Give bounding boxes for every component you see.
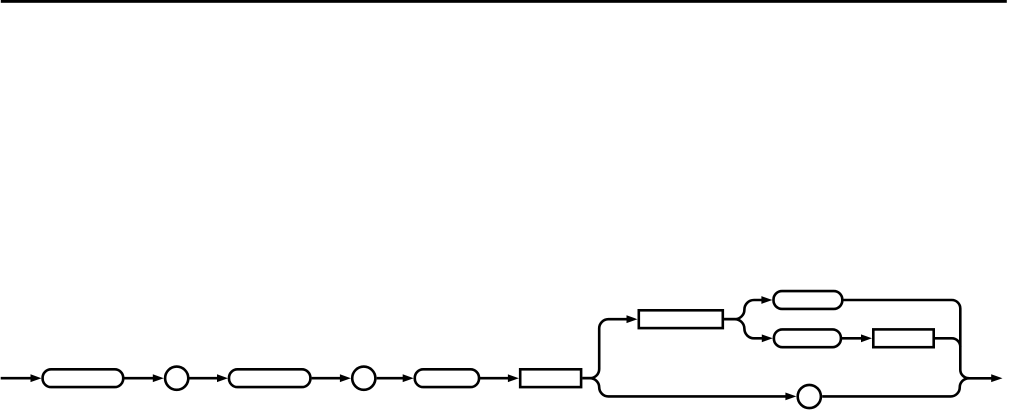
nonterminal rect R2 — [639, 310, 723, 328]
wire R3 to merge vertical — [934, 338, 961, 347]
arrow exit — [991, 374, 1002, 382]
terminal pill P1 — [43, 369, 124, 387]
circle C1 — [165, 367, 188, 390]
terminal pill P5 — [774, 329, 841, 347]
arrow into circle C2 — [340, 374, 351, 382]
wire C2 to P3 — [377, 377, 404, 380]
wire P3 to R1 — [480, 377, 509, 380]
wire split S1 upper branch to R2 — [582, 319, 628, 378]
arrow into pill P3 — [403, 374, 414, 382]
wire entry — [1, 377, 32, 380]
wire split S2 lower branch to P5 — [724, 319, 764, 338]
arrow into pill P4 — [761, 296, 772, 304]
arrow into rect R2 — [627, 315, 638, 323]
wire C1 to P2 — [190, 377, 219, 380]
arrow into circle C1 — [153, 374, 164, 382]
arrow into pill P2 — [217, 374, 228, 382]
terminal pill P2 — [229, 369, 310, 387]
wire P2 to C2 — [312, 377, 341, 380]
nonterminal rect R1 — [520, 369, 581, 387]
wire split S1 lower branch — [582, 378, 786, 396]
top rule — [1, 0, 1007, 3]
wire P4 to merge vertical down to exit — [843, 300, 969, 378]
wire P1 to C1 — [124, 377, 154, 380]
wire split S2 upper branch to P4 — [724, 300, 763, 319]
arrow into circle C3 — [785, 393, 796, 401]
circle C2 — [352, 367, 375, 390]
wire C3 to merge with up-curve to exit — [822, 378, 992, 396]
arrow into rect R3 — [861, 334, 872, 342]
arrow into pill P5 — [762, 334, 773, 342]
terminal pill P4 — [774, 291, 843, 309]
wire P5 to R3 — [840, 337, 862, 340]
terminal pill P3 — [415, 369, 479, 387]
nonterminal rect R3 — [873, 329, 933, 347]
arrow into rect R1 — [508, 374, 519, 382]
circle C3 — [798, 385, 821, 408]
arrow into pill P1 — [31, 374, 42, 382]
